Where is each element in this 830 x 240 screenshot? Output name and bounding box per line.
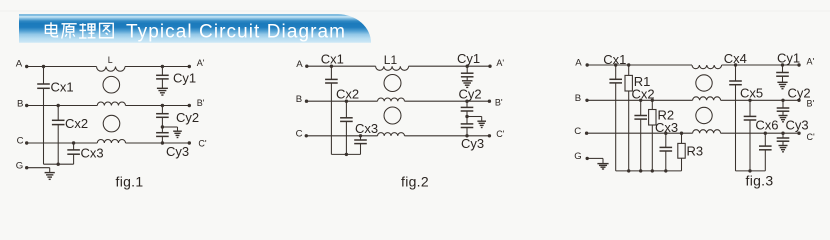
svg-text:Cy1: Cy1 [777, 51, 800, 66]
ground of Cy1 (fig.1) [157, 87, 168, 89]
fig.3 terminal B [575, 93, 589, 104]
fig.2 terminal C' [488, 129, 505, 139]
capacitor Cx5 (fig.3) [740, 85, 763, 172]
resistor R2 (fig.3) [649, 99, 675, 173]
fig.1 wire line B [27, 105, 98, 107]
fig.2 terminal A' [488, 58, 504, 68]
capacitor Cx6 (fig.3) [755, 118, 778, 171]
fig.1 wire line C [27, 142, 98, 144]
svg-text:Cy3: Cy3 [461, 136, 484, 151]
ground of Cy2 (fig.3) [779, 115, 788, 117]
svg-text:Cx3: Cx3 [355, 121, 378, 136]
choke core circle 2 (fig.2) [384, 107, 401, 124]
fig.1 terminal G [16, 161, 29, 172]
svg-text:B: B [296, 94, 302, 105]
ground of Cy2/Cy3 midpoint (fig.2) [477, 120, 486, 122]
fig.2 terminal B' [488, 98, 503, 108]
svg-text:A': A' [197, 58, 205, 68]
svg-text:fig.2: fig.2 [401, 174, 429, 190]
inductor L winding B (fig.1) [97, 102, 125, 106]
fig.3 wire line C [587, 132, 693, 134]
svg-text:Cx1: Cx1 [603, 52, 626, 67]
fig.3 terminal A' [797, 57, 814, 67]
svg-text:C: C [574, 126, 581, 137]
svg-text:G: G [574, 151, 581, 162]
svg-text:G: G [16, 161, 23, 172]
inductor L winding C (fig.1) [97, 139, 125, 143]
svg-text:Cy1: Cy1 [457, 51, 480, 66]
fig.1 terminal B [17, 98, 28, 109]
fig.1 terminal C [17, 136, 29, 147]
ground of Cy3 (fig.3) [779, 145, 788, 147]
fig.3 terminal B' [797, 99, 814, 109]
capacitor Cy3 (fig.2) [461, 117, 484, 152]
faint top rule [0, 10, 830, 12]
fig.2 terminal B [296, 94, 308, 105]
choke core circle 2 (fig.3) [696, 107, 712, 123]
resistor R3 (fig.3) [678, 132, 703, 171]
ground at G (fig.3) [597, 163, 608, 165]
resistor R1 (fig.3) [625, 63, 650, 172]
svg-text:Cy2: Cy2 [176, 110, 199, 125]
fig.3 terminal G [574, 151, 589, 162]
svg-text:Cx5: Cx5 [740, 85, 763, 100]
inductor winding C (fig.3 choke) [693, 130, 721, 133]
capacitor Cx2 (fig.2) [336, 87, 359, 156]
capacitor Cy1 (fig.3) [776, 51, 800, 82]
capacitor Cx3 (fig.2) [354, 121, 378, 154]
fig.3 terminal C' [797, 132, 815, 142]
svg-text:B': B' [197, 98, 205, 108]
svg-text:Cx4: Cx4 [724, 51, 747, 66]
inductor L1 winding A (fig.2) [376, 53, 409, 70]
fig.1 terminal A [16, 58, 29, 69]
svg-text:Cy3: Cy3 [786, 118, 809, 133]
fig.1 wire line A [27, 66, 97, 68]
svg-text:A': A' [807, 57, 815, 67]
svg-text:L1: L1 [384, 53, 398, 67]
svg-text:Cx1: Cx1 [321, 52, 344, 67]
fig.3 terminal A [575, 58, 589, 69]
svg-text:A': A' [496, 58, 504, 68]
fig.2 Cy midpoint ground stub [467, 116, 482, 118]
fig.1 star bus wire [44, 163, 74, 165]
choke core circle 1 (fig.1) [103, 76, 120, 93]
choke core circle 1 (fig.3) [696, 75, 712, 91]
inductor L winding A (fig.1) [97, 55, 126, 71]
capacitor Cy1 (fig.2) [457, 51, 480, 81]
svg-text:Cy3: Cy3 [166, 144, 189, 159]
fig.3 star bus 1 wire [616, 170, 682, 172]
header banner [19, 14, 371, 43]
fig.2 wire line B [307, 100, 378, 102]
fig.1 terminal A' [188, 58, 205, 68]
ground of Cy1 (fig.3) [777, 81, 787, 83]
svg-text:C': C' [496, 129, 504, 139]
choke core circle 1 (fig.2) [384, 75, 401, 92]
choke core circle 2 (fig.1) [103, 115, 120, 132]
svg-text:B: B [575, 93, 581, 104]
svg-text:Cx1: Cx1 [51, 80, 74, 95]
svg-text:A: A [16, 58, 23, 69]
inductor winding A (fig.3 choke) [692, 65, 722, 69]
svg-text:A: A [575, 58, 582, 69]
fig.1 Cy midpoint ground stub [162, 126, 177, 128]
fig.3 wire line B [587, 99, 693, 101]
capacitor Cy1 (fig.1) [156, 65, 196, 88]
capacitor Cx2 (fig.3) [632, 87, 655, 173]
svg-text:Cx6: Cx6 [755, 118, 778, 133]
svg-text:fig.1: fig.1 [116, 174, 144, 190]
fig.2 wire line A [307, 65, 376, 67]
svg-text:fig.3: fig.3 [746, 172, 774, 188]
capacitor Cx1 (fig.2) [321, 52, 344, 155]
svg-text:C': C' [198, 139, 206, 149]
fig.1 terminal C' [188, 139, 207, 149]
svg-text:B: B [17, 98, 23, 109]
svg-text:A: A [296, 59, 303, 70]
svg-text:Cy1: Cy1 [173, 70, 196, 85]
header title [45, 21, 345, 42]
fig.1 terminal B' [188, 98, 205, 108]
ground of Cy1 (fig.2) [462, 80, 473, 82]
svg-text:Cx3: Cx3 [655, 120, 678, 135]
svg-text:L: L [108, 55, 113, 65]
inductor winding B (fig.3 choke) [693, 97, 721, 101]
fig.2 terminal A [296, 59, 308, 70]
fig.3 wire line A [587, 64, 692, 66]
capacitor Cx2 (fig.1) [52, 104, 88, 166]
capacitor Cy2 (fig.1) [156, 104, 199, 129]
svg-text:C: C [296, 129, 303, 140]
svg-text:R3: R3 [687, 144, 704, 159]
fig.1 wire G [27, 167, 50, 169]
fig.3 star bus 2 wire [736, 170, 766, 172]
capacitor Cx1 (fig.3) [603, 52, 626, 171]
svg-text:Cx2: Cx2 [336, 87, 359, 102]
svg-text:C': C' [807, 132, 815, 142]
inductor L1 winding B (fig.2) [378, 98, 405, 101]
svg-text:Cy2: Cy2 [459, 87, 482, 102]
fig.2 wire line C [306, 135, 377, 137]
capacitor Cy2 (fig.3) [777, 85, 811, 115]
svg-text:Cx2: Cx2 [65, 116, 88, 131]
svg-text:Cx3: Cx3 [81, 145, 104, 160]
capacitor Cy3 (fig.1) [156, 127, 189, 159]
capacitor Cx4 (fig.3) [724, 51, 747, 171]
fig.2 star bus wire [331, 153, 360, 155]
capacitor Cx3 (fig.1) [67, 141, 103, 164]
inductor L1 winding C (fig.2) [378, 133, 405, 136]
fig.2 terminal C [296, 129, 308, 140]
svg-text:B': B' [495, 98, 503, 108]
capacitor Cy2 (fig.2) [459, 87, 482, 119]
svg-text:C: C [17, 136, 24, 147]
ground at G (fig.1) [45, 172, 55, 174]
fig.3 wire G [587, 157, 603, 159]
ground of Cy2/Cy3 midpoint (fig.1) [173, 130, 182, 132]
fig.3 terminal C [574, 126, 588, 137]
capacitor Cx3 (fig.3) [655, 120, 678, 172]
capacitor Cy3 (fig.3) [777, 118, 809, 146]
capacitor Cx1 (fig.1) [37, 65, 73, 164]
svg-text:Cy2: Cy2 [788, 85, 811, 100]
